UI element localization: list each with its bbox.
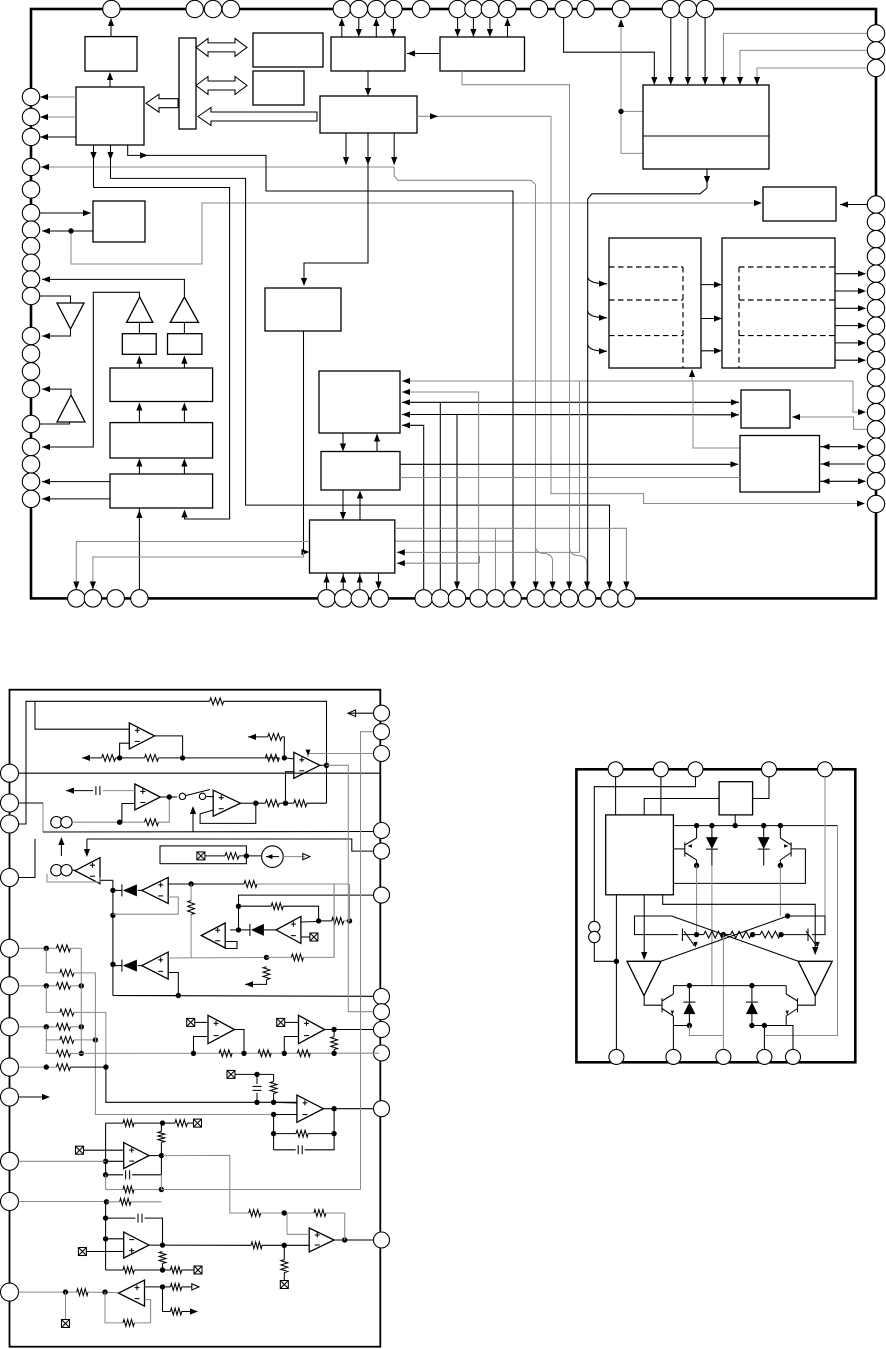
wire: [155, 736, 183, 758]
top pin group CLK: [186, 0, 240, 17]
bus y=825.6: [673, 825, 837, 827]
resistor Rv4: [158, 1131, 165, 1142]
amp U12 stage: [124, 1143, 149, 1169]
current source I1: [51, 817, 72, 828]
wire: [378, 573, 380, 588]
wire: [333, 884, 335, 957]
wire: [392, 18, 394, 35]
diode D2: [138, 965, 142, 967]
wire: [341, 20, 343, 37]
wire: [507, 20, 509, 37]
wire: [183, 404, 185, 423]
wire: [820, 480, 866, 482]
op-amp U4: [294, 752, 320, 778]
wire: [342, 433, 344, 450]
wire: [472, 18, 474, 35]
wire: [42, 389, 71, 395]
wire: [110, 20, 112, 37]
wire: [283, 856, 305, 858]
right pin group R1: [867, 25, 884, 77]
wire: [60, 840, 62, 856]
inverter (down): [57, 303, 84, 329]
wire: [42, 481, 110, 483]
top pin group OSC: [555, 0, 630, 17]
wire: [570, 548, 587, 589]
op-amp U2: [135, 784, 161, 810]
wire: [820, 446, 866, 448]
op-amp circuit boundary: [10, 690, 381, 1347]
wire: [120, 743, 130, 758]
right pin R3: [867, 495, 884, 512]
wire: [112, 880, 114, 995]
wire: [400, 463, 738, 465]
op-amp U5: [213, 790, 240, 816]
wire: [840, 204, 867, 206]
wire: [359, 492, 361, 521]
wire: [105, 1202, 107, 1239]
wire: [407, 53, 440, 55]
wire: [251, 1242, 262, 1249]
resistor Rv3: [331, 1037, 338, 1050]
block B8B (charge pump): [722, 238, 835, 368]
resistor Rv5 + row 1270: [159, 1252, 166, 1264]
wire: [704, 18, 706, 84]
feedback R row 1123: [106, 1122, 123, 1124]
wire: [375, 20, 377, 37]
wire: [361, 732, 374, 1190]
wire: [145, 1286, 163, 1288]
wire: [348, 884, 373, 1012]
diode D7: [688, 986, 690, 1002]
crossing wires: [661, 916, 788, 961]
wire: [35, 701, 129, 729]
wire: [740, 50, 867, 83]
wire: [439, 402, 441, 589]
wire: [643, 135, 769, 137]
amp U14 stage: [124, 1232, 149, 1258]
bottom pin group B3: [415, 590, 521, 607]
wire: [644, 799, 719, 815]
wire: [206, 795, 214, 797]
wire: [72, 869, 75, 871]
amp TU1: [127, 297, 153, 322]
amp U7 (rectifier): [142, 952, 168, 979]
block BR2: [719, 782, 753, 815]
fat arrow FA1: [196, 38, 247, 56]
driver bottom pins: [609, 1049, 801, 1064]
wire: [19, 985, 57, 987]
current source I3 (circle arrow): [262, 846, 284, 868]
wire: [400, 477, 740, 479]
wire: [113, 897, 178, 914]
current source I4: [589, 921, 600, 942]
wire: [393, 133, 395, 165]
wire: [271, 1112, 276, 1117]
wire: [564, 18, 655, 84]
wire: [673, 849, 805, 884]
wire: [163, 1287, 171, 1312]
transistor Q2: [790, 842, 792, 856]
wire: [304, 133, 368, 284]
wire: [210, 698, 224, 705]
wire: [701, 284, 720, 286]
top pin group VDD: [662, 0, 714, 17]
wire: [615, 895, 617, 1050]
block B9 (por): [741, 390, 790, 428]
wire: [40, 166, 394, 168]
wire: [621, 152, 643, 154]
wire: [342, 490, 344, 519]
wire: [301, 921, 319, 924]
diode D1: [138, 889, 142, 891]
top pin row 1: [103, 0, 120, 17]
wire: [820, 463, 866, 465]
node row 1025.5: [673, 1025, 689, 1027]
amp TUL: [57, 395, 85, 422]
wire: [76, 542, 309, 590]
wire: [225, 942, 237, 949]
wire: [397, 562, 480, 564]
wire: [19, 1066, 57, 1068]
wire: [304, 331, 309, 552]
resistor Rv2 + label arrow: [263, 967, 270, 980]
wire: [87, 839, 373, 851]
left pin row (analog): [1, 764, 19, 1301]
wire: [635, 916, 679, 935]
trim below: [65, 1292, 67, 1319]
wire: [80, 948, 82, 1053]
wire: [701, 318, 720, 320]
block BM: [321, 452, 400, 491]
wire: [286, 772, 294, 804]
wire: [240, 802, 255, 804]
middle resistor row: [681, 929, 683, 942]
wire: [94, 973, 96, 1040]
wire: [66, 790, 93, 792]
amp U8: [276, 916, 301, 943]
wire: [757, 68, 867, 84]
wire: [19, 1026, 57, 1028]
wire: [19, 1291, 77, 1293]
amp A1 (down): [627, 961, 661, 995]
wire: [301, 936, 310, 938]
wire: [19, 1096, 47, 1098]
cap C2 row 1218: [137, 1214, 139, 1223]
wire: [163, 1155, 249, 1213]
wire: [40, 296, 71, 303]
wire: [40, 212, 91, 214]
block B2B: [253, 71, 304, 105]
wire: [536, 546, 553, 589]
left pin group C: [22, 204, 39, 304]
top pin group DATA: [333, 0, 430, 17]
IC block diagram boundary: [31, 9, 876, 598]
wire: [42, 230, 93, 232]
amp TU2: [170, 297, 198, 322]
wire: [724, 33, 868, 83]
block B5 (PLL): [319, 371, 400, 433]
diode D8: [751, 986, 753, 1002]
wire: [192, 808, 194, 832]
wire: [594, 777, 695, 921]
wire: [105, 1012, 107, 1067]
wire: [42, 329, 71, 336]
left pin group F: [22, 438, 39, 507]
bottom pin group B4: [527, 590, 635, 607]
block BR1 (bias): [606, 815, 674, 895]
wire: [734, 815, 736, 826]
wire: [342, 573, 344, 589]
wire: [138, 460, 140, 475]
wire: [687, 18, 689, 84]
block B10 (serial): [310, 520, 395, 573]
wire: [113, 995, 374, 998]
row y=803 resistors: [256, 802, 265, 804]
right pin row (analog): [374, 705, 390, 1248]
wire: [19, 772, 381, 774]
block B2C: [253, 33, 323, 67]
fat arrow FA4: [198, 108, 317, 126]
wire: [205, 855, 225, 857]
wire: [239, 895, 374, 906]
feedback res/cap: [296, 1130, 308, 1137]
wire: [128, 145, 513, 589]
diode D3: [264, 929, 276, 931]
block T3 (ADC): [110, 474, 213, 508]
wire: [183, 356, 185, 368]
block SMALL (mux): [93, 201, 145, 242]
left pin group A: [22, 88, 39, 145]
left pin E: [22, 415, 39, 432]
dashed section B7: [609, 267, 683, 368]
wire: [701, 350, 720, 352]
top pin group CTRL: [449, 0, 548, 17]
wire: [265, 757, 279, 759]
wire: [138, 322, 140, 333]
cap C1: [125, 1170, 127, 1179]
wire: [334, 1239, 373, 1241]
wire: [47, 874, 100, 882]
transistor Q1: [684, 842, 686, 856]
op-amp U1: [129, 723, 154, 749]
block B6 (bandgap): [763, 187, 836, 221]
wire: [95, 1040, 273, 1115]
wire: [248, 736, 268, 738]
wire: [349, 884, 351, 921]
wire: [402, 425, 424, 589]
wire: [359, 573, 361, 589]
wire: [160, 796, 177, 798]
block T1 (DAC): [110, 368, 213, 402]
wire: [764, 826, 837, 1036]
wire: [19, 1201, 107, 1203]
left pin group D: [22, 327, 39, 398]
block B0 (top-left small): [85, 37, 137, 72]
wire: [208, 1015, 235, 1043]
wire: [46, 1040, 56, 1054]
amp U10: [299, 1015, 325, 1043]
wire: [308, 754, 373, 758]
amp U6 (rectifier): [142, 877, 168, 903]
block B8 (oscillator): [643, 85, 769, 169]
wire: [238, 906, 240, 930]
wire: [326, 573, 328, 589]
wire: [786, 1026, 793, 1050]
amp U13 stage: [297, 1095, 324, 1122]
block B4 (ref): [265, 288, 341, 331]
wire: [93, 145, 95, 188]
wire: [42, 292, 139, 447]
wire: [462, 71, 570, 589]
wire: [40, 422, 69, 424]
block B7 (regulator): [609, 238, 701, 368]
wire: [320, 764, 327, 766]
wire: [644, 996, 662, 1006]
wire: [72, 821, 144, 823]
resistor Rv6 to trim: [281, 1260, 288, 1273]
wire: [122, 804, 135, 823]
wire: [40, 136, 76, 138]
op-amp U3 (buffer): [75, 858, 100, 884]
wire: [348, 712, 373, 714]
interface bar: [179, 38, 196, 129]
wire: [489, 18, 491, 35]
driver circuit boundary: [576, 769, 855, 1062]
row 1189 out: [105, 1175, 107, 1190]
amp U9: [201, 923, 225, 948]
wire: [696, 866, 698, 935]
wire: [183, 322, 185, 333]
wire: [46, 1027, 60, 1040]
wire: [40, 96, 76, 98]
transistor Q3: [661, 998, 663, 1012]
wire: [417, 116, 860, 503]
wire: [402, 392, 479, 589]
wire: [457, 18, 459, 35]
wire: [100, 879, 113, 881]
feedback row R1 R2: [82, 757, 102, 759]
wire: [42, 279, 184, 296]
wire: [660, 777, 662, 815]
wire: [149, 1244, 251, 1246]
wire: [138, 404, 140, 423]
wire: [134, 1300, 150, 1323]
wire: [792, 417, 867, 429]
wire: [19, 947, 57, 949]
wire: [358, 18, 360, 35]
amp A2 (down): [798, 961, 832, 995]
wire: [394, 167, 535, 589]
trim X + cap/res comp: [227, 1070, 235, 1078]
block B11 (io): [740, 436, 820, 493]
current source I2: [51, 865, 72, 876]
diode D6: [763, 826, 765, 838]
wire: [138, 356, 140, 368]
block B3B (decoder): [440, 37, 525, 71]
wire: [113, 973, 178, 996]
block B1 (control): [76, 87, 144, 145]
block B3 (timing): [320, 96, 417, 133]
right pin chain R2: [867, 196, 884, 490]
amp U16 output stage: [309, 1228, 334, 1252]
dashed section B8B: [739, 267, 835, 368]
wire: [323, 1108, 373, 1110]
wire: [93, 552, 304, 589]
wire: [46, 986, 60, 1013]
bottom pin group B1: [68, 590, 148, 607]
wire: [615, 777, 617, 815]
wire: [168, 883, 244, 885]
block S2: [168, 334, 202, 355]
wire: [835, 273, 865, 275]
wire: [345, 133, 347, 165]
switch S1: [179, 793, 185, 799]
resistor Rv1: [188, 901, 195, 915]
wire: [670, 18, 672, 84]
block B2 (register): [331, 37, 405, 71]
wire: [376, 435, 378, 452]
wire: [753, 777, 769, 799]
wire: [327, 765, 349, 884]
fat arrow FA3: [146, 94, 178, 112]
trim X1: [197, 852, 205, 860]
fat arrow FA2: [196, 77, 247, 95]
wire: [588, 169, 707, 589]
left pin B: [22, 158, 39, 198]
wire: [367, 71, 369, 94]
transistor Q4: [797, 998, 799, 1012]
wire: [19, 839, 36, 878]
wire: [402, 380, 853, 382]
wire: [588, 277, 607, 284]
wire: [456, 415, 458, 589]
wire: [168, 956, 266, 959]
wire: [138, 512, 140, 589]
wire: [287, 1233, 309, 1235]
wire: [183, 460, 185, 475]
amp U15 (inverted buffer): [119, 1280, 145, 1306]
wire: [40, 116, 76, 118]
wire: [395, 540, 513, 542]
wire: [689, 1026, 723, 1036]
row 1053 long: [81, 1052, 379, 1054]
block T2 (DAC): [110, 423, 213, 458]
wire: [149, 1155, 163, 1157]
wire: [395, 528, 627, 589]
wire: [109, 73, 111, 87]
switch block rect: [160, 846, 246, 864]
driver top pins: [608, 762, 832, 777]
wire: [71, 230, 93, 232]
wire: [42, 498, 110, 500]
wire: [110, 145, 112, 178]
wire: [42, 803, 44, 832]
wire: [46, 948, 60, 973]
wire: [106, 1123, 124, 1161]
wire: [254, 1100, 259, 1105]
wire: [722, 935, 724, 1036]
bottom pin group B2: [318, 590, 389, 607]
wire: [19, 701, 36, 824]
diode D5: [711, 826, 713, 838]
bus2 y=985.6: [673, 985, 786, 987]
block S1: [122, 334, 156, 355]
